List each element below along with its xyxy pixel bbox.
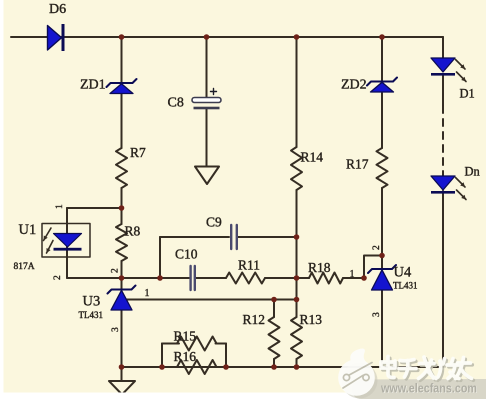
svg-text:D1: D1 bbox=[460, 87, 475, 101]
svg-text:C8: C8 bbox=[168, 96, 184, 111]
svg-text:C10: C10 bbox=[175, 247, 198, 262]
svg-text:3: 3 bbox=[111, 327, 121, 332]
svg-text:1: 1 bbox=[145, 288, 150, 299]
svg-text:2: 2 bbox=[111, 268, 121, 273]
svg-text:3: 3 bbox=[372, 312, 382, 317]
svg-text:ZD2: ZD2 bbox=[341, 78, 367, 93]
svg-text:R17: R17 bbox=[346, 157, 369, 172]
svg-text:1: 1 bbox=[350, 269, 355, 280]
svg-text:R14: R14 bbox=[301, 150, 324, 165]
svg-text:D6: D6 bbox=[49, 2, 66, 17]
svg-text:C9: C9 bbox=[206, 215, 222, 230]
svg-text:TL431: TL431 bbox=[393, 281, 418, 291]
svg-text:R15: R15 bbox=[174, 329, 197, 344]
svg-text:1: 1 bbox=[55, 204, 65, 209]
svg-text:817A: 817A bbox=[14, 262, 35, 272]
svg-text:2: 2 bbox=[53, 275, 63, 280]
svg-text:R18: R18 bbox=[308, 260, 331, 275]
svg-text:Dn: Dn bbox=[465, 165, 481, 179]
svg-text:2: 2 bbox=[372, 245, 382, 250]
svg-text:TL431: TL431 bbox=[79, 310, 104, 320]
svg-text:ZD1: ZD1 bbox=[80, 78, 106, 93]
svg-text:R13: R13 bbox=[300, 312, 323, 327]
svg-text:R12: R12 bbox=[243, 312, 266, 327]
svg-text:R7: R7 bbox=[130, 145, 146, 160]
svg-text:R16: R16 bbox=[174, 349, 197, 364]
svg-text:www.elecfans.com: www.elecfans.com bbox=[380, 382, 477, 396]
svg-text:U3: U3 bbox=[83, 294, 101, 310]
svg-text:U1: U1 bbox=[19, 222, 37, 238]
svg-text:U4: U4 bbox=[394, 265, 412, 281]
svg-text:R11: R11 bbox=[238, 258, 260, 273]
svg-text:R8: R8 bbox=[125, 224, 141, 239]
